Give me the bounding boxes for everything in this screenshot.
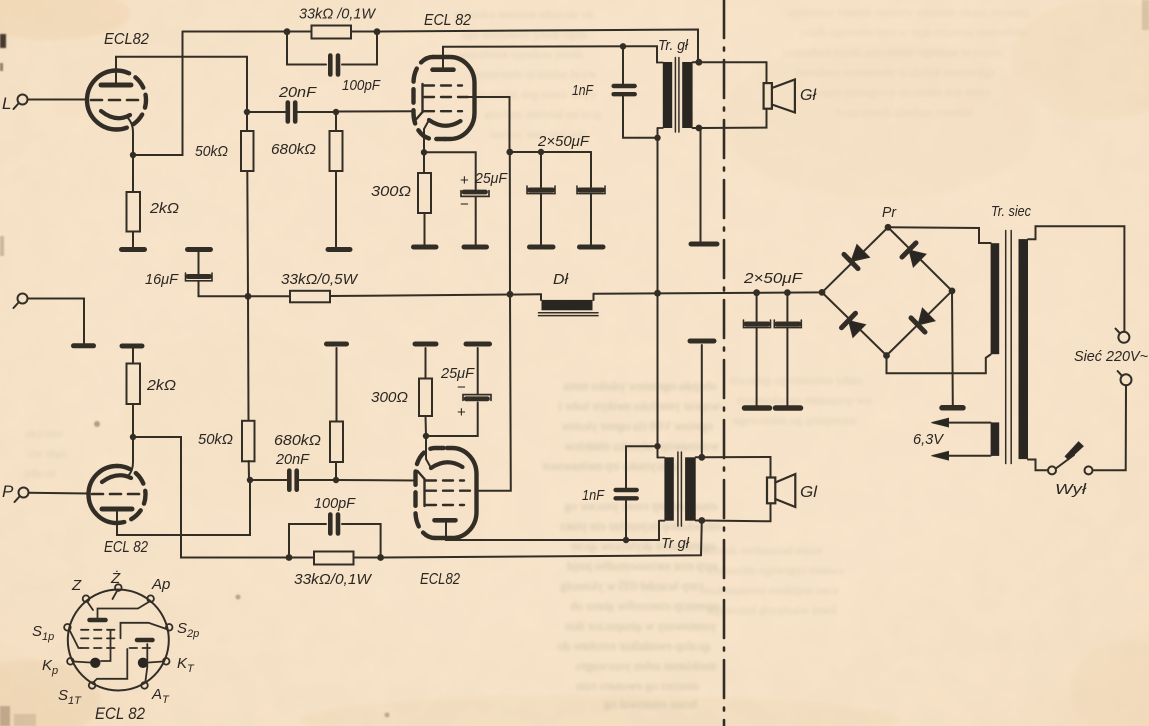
socket heater lead Z	[88, 602, 94, 610]
svg-text:mezakou wotnemele ijcalzilut m: mezakou wotnemele ijcalzilut meinwalgz	[796, 65, 996, 79]
speaker Gl lower	[767, 474, 795, 507]
wire V4 cathode to node K4	[426, 436, 431, 468]
ground above 16uF	[188, 247, 211, 252]
svg-text:Dł: Dł	[553, 271, 569, 288]
switch Wyl right contact	[1085, 466, 1093, 474]
diode D4 (lower-right)	[911, 308, 935, 332]
socket pin Z (heater)	[83, 595, 90, 602]
wire 2k to ground	[132, 232, 134, 248]
svg-text:Tr. gł: Tr. gł	[658, 37, 689, 54]
socket pin S2p	[166, 624, 173, 631]
ground under 25uF	[464, 245, 487, 250]
ground bar (secondary upper)	[691, 242, 717, 247]
svg-text:ogewondas og ąnzcytswu: ogewondas og ąnzcytswu	[733, 413, 856, 427]
wire K1 to feedback rail	[133, 32, 183, 156]
switch Wyl left contact	[1048, 466, 1056, 474]
node B1 (B+ decoupling)	[245, 293, 252, 300]
capacitor 1nF upper	[614, 46, 658, 138]
svg-text:2×50μF: 2×50μF	[537, 133, 590, 150]
socket Kp lead	[74, 662, 91, 663]
transformer Tr.siec HV winding	[991, 243, 1000, 354]
svg-text:20nF: 20nF	[278, 84, 317, 101]
capacitor 16uF electrolytic	[186, 252, 249, 296]
node FB3	[286, 554, 293, 561]
node bridge right	[949, 288, 956, 295]
V3 grid (dashed)	[92, 493, 140, 496]
node FB4	[377, 554, 384, 561]
wire lower feedback to transformer secondary	[381, 521, 702, 558]
resistor 680k lower	[330, 348, 343, 480]
svg-text:ainzcел og ewonатs ruin: ainzcел og ewonатs ruin	[575, 679, 699, 693]
capacitor 25uF lower electrolytic	[463, 348, 491, 400]
node C2	[784, 289, 791, 296]
node K3	[130, 434, 136, 440]
svg-text:33kΩ/0,1W: 33kΩ/0,1W	[294, 571, 373, 588]
node SG2	[506, 149, 513, 156]
capacitor 2x50uF b (electrolytic)	[577, 152, 605, 245]
capacitor 2x50uF a (electrolytic)	[527, 152, 555, 245]
wire V1 cathode to node K1	[127, 117, 133, 155]
node G2	[333, 109, 339, 115]
wire node A3 to lower R50k	[248, 461, 250, 480]
svg-text:einatsko merozw einzcalz ok: einatsko merozw einzcalz ok	[455, 7, 594, 21]
resistor 300ohm lower	[419, 348, 432, 436]
node B2	[654, 290, 661, 297]
svg-text:ogewoizd ąlzcytsalw inwd: ogewoizd ąlzcytsalw inwd	[709, 603, 836, 617]
transformer Tr.gl lower primary	[658, 457, 674, 520]
svg-text:50kΩ: 50kΩ	[195, 143, 228, 160]
svg-text:yzsntawozy w ąinapzczor ikin: yzsntawozy w ąinapzczor ikin	[564, 619, 716, 633]
resistor 33k/0.5W	[290, 291, 330, 303]
wire secondary top to ground	[701, 345, 703, 457]
wire SG2 vertical to B+ rail and lower screen	[476, 152, 511, 491]
choke Dl	[539, 294, 599, 316]
svg-text:680kΩ: 680kΩ	[271, 141, 316, 158]
terminal P	[15, 488, 29, 503]
svg-text:meiklatsm zebm ynzcwagro: meiklatsm zebm ynzcwagro	[576, 659, 716, 673]
resistor 33k/0.1W upper	[312, 26, 352, 39]
ground bar (input)	[74, 343, 94, 348]
ground bar (bridge)	[942, 405, 963, 411]
svg-text:hcajcartsuli ąinelazc merotal: hcajcartsuli ąinelazc merotal	[836, 105, 974, 119]
wire R50k to node B1	[246, 171, 249, 296]
socket pentode grid rows	[81, 630, 117, 648]
resistor 50k upper	[241, 131, 254, 171]
svg-text:100pF: 100pF	[314, 495, 356, 512]
node D4	[654, 443, 660, 449]
diode D1 (upper-left)	[844, 245, 870, 269]
tube V2 ECL82 pentode envelope	[414, 57, 475, 139]
svg-text:ogetisw V08 ria ogenz ykutsw: ogetisw V08 ria ogenz ykutsw	[561, 419, 713, 433]
wire 100pF branch lower	[289, 524, 381, 558]
socket pin Zdot (heater)	[115, 584, 122, 591]
transformer Tr.gl upper core	[675, 58, 679, 133]
socket screen zig	[101, 630, 111, 661]
ground under 300ohm	[414, 245, 437, 250]
tube V3 ECL82 triode envelope (lower, mirrored)	[89, 466, 146, 523]
svg-text:100pF: 100pF	[342, 77, 381, 94]
svg-text:ECL82: ECL82	[104, 31, 149, 48]
wire node A1 to R50k	[246, 112, 248, 131]
svg-text:6,3V: 6,3V	[913, 431, 945, 448]
capacitor 100pF upper	[330, 56, 338, 75]
V4 grid rows	[418, 471, 472, 506]
socket pentode anode lead from Ap	[98, 602, 150, 618]
svg-text:ydu ne: ydu ne	[24, 466, 56, 480]
svg-text:ogenzcip einezroflw ąłatsz ob: ogenzcip einezroflw ąłatsz ob	[570, 599, 719, 613]
wire bridge bottom to Tr.siec	[887, 355, 991, 374]
svg-text:Sieć 220V~: Sieć 220V~	[1074, 348, 1148, 365]
ground under 2k	[122, 247, 145, 252]
tube V4 ECL82 pentode envelope (lower, mirrored)	[416, 448, 477, 538]
capacitor 100pF lower	[330, 515, 338, 534]
socket AT lead	[145, 644, 147, 682]
svg-text:ow złąd: ow złąd	[28, 446, 66, 460]
socket pin Ap	[147, 595, 154, 602]
wire bridge top to Tr.siec	[888, 227, 991, 243]
svg-text:Pr: Pr	[882, 204, 897, 221]
svg-text:wotnemele ijcalzilut hcyw: wotnemele ijcalzilut hcyw	[470, 67, 597, 81]
node bridge left	[819, 289, 826, 296]
node FB2	[374, 28, 381, 35]
resistor 680k upper	[330, 112, 343, 248]
capacitor 20nF upper	[247, 103, 336, 122]
svg-text:Z: Z	[71, 577, 82, 594]
tube socket ECL82 outline	[68, 590, 169, 691]
svg-text:hcuiz einatswal og: hcuiz einatswal og	[603, 697, 697, 711]
svg-text:Ż: Ż	[110, 570, 121, 587]
wire terminal bottom to switch	[1093, 385, 1127, 470]
svg-text:ajnzcelod einatok merozw einzc: ajnzcelod einatok merozw einzcalz okauz …	[788, 5, 1029, 19]
svg-text:680kΩ: 680kΩ	[274, 432, 321, 449]
V2 anode	[433, 67, 454, 72]
svg-text:Gl: Gl	[800, 484, 817, 501]
svg-text:50kΩ: 50kΩ	[198, 431, 233, 448]
wire K4 to 25uF lower	[426, 403, 478, 437]
ground bar (secondary lower)	[690, 339, 714, 344]
transformer Tr.gl upper secondary	[682, 62, 692, 128]
wire V2 anode to transformer	[443, 46, 657, 67]
wire K2 to 25uF	[424, 152, 476, 190]
V1 anode	[101, 83, 131, 88]
wire feedback rail to output transformer secondary	[377, 30, 698, 60]
svg-text:Tr gł: Tr gł	[661, 535, 690, 552]
wire feedback rail top	[183, 31, 288, 33]
svg-text:−: −	[460, 196, 469, 213]
wire R33k lower to node FB4	[354, 557, 381, 559]
node SG (screen feed)	[507, 291, 514, 298]
node S2	[696, 125, 703, 132]
terminal L	[14, 95, 28, 110]
transformer Tr.siec mains winding	[1019, 239, 1029, 459]
svg-text:azrp ezst meinawotsalbo jenjd: azrp ezst meinawotsalbo jenjd	[566, 559, 718, 573]
capacitor 2x50uF d (electrolytic)	[774, 293, 801, 406]
wire to R33k lower	[289, 557, 314, 559]
wire node B1 down to lower 50k	[247, 296, 250, 420]
node D1	[620, 43, 626, 49]
socket triode cathode dot	[138, 658, 148, 668]
capacitor 2x50uF c (electrolytic)	[744, 293, 771, 406]
arrow 6.3V bottom	[932, 451, 949, 460]
wire K3 to lower feedback rail	[133, 437, 289, 558]
svg-text:1nF: 1nF	[582, 487, 605, 504]
node A3	[247, 477, 253, 483]
svg-text:L: L	[2, 94, 11, 113]
terminal (ground input)	[14, 294, 28, 309]
svg-text:ynzcytsuka irp meinawosot: ynzcytsuka irp meinawosot	[542, 459, 679, 473]
capacitor 20nF lower	[250, 471, 336, 490]
node K4	[423, 433, 429, 439]
diode D3 (lower-left)	[842, 313, 866, 337]
node F1	[538, 149, 544, 155]
wire R33k to node FB2	[351, 31, 377, 33]
socket KT lead	[149, 662, 164, 663]
svg-text:ydalk ogensalw mej w ogat eina: ydalk ogensalw mej w ogat einawoz meinzc…	[800, 25, 1026, 39]
transformer Tr.gl lower secondary	[685, 457, 696, 520]
svg-text:yzrp hcazdяł 035 w ykinsolg: yzrp hcazdяł 035 w ykinsolg	[559, 579, 704, 593]
transformer Tr.gl upper primary	[657, 62, 672, 128]
wire switch to mains winding bottom	[1028, 460, 1048, 471]
svg-text:ECL 82: ECL 82	[104, 539, 148, 556]
wire mains winding top to terminal	[1028, 226, 1124, 331]
wire L input to V1 grid	[28, 99, 89, 101]
socket pin Kp	[67, 658, 74, 665]
socket pin S1p	[64, 624, 71, 631]
node bridge bottom	[883, 352, 890, 359]
svg-text:33kΩ /0,1W: 33kΩ /0,1W	[299, 6, 377, 23]
socket pentode anode bar	[90, 618, 106, 623]
wire B+ rail right	[594, 292, 823, 293]
wire V4 anode to transformer	[446, 521, 659, 540]
svg-text:20nF: 20nF	[275, 451, 310, 468]
wire primary top to B+	[657, 293, 659, 457]
svg-text:ogeruinazrd ąkytsталw ąjcne: ogeruinazrd ąkytsталw ąjcne	[570, 539, 716, 553]
resistor 50k lower	[242, 421, 255, 462]
wire secondary bottom to speaker	[693, 109, 767, 128]
svg-text:wopraz yntejloks meikytr bałw: wopraz yntejloks meikytr bałw i	[558, 399, 720, 413]
svg-text:1nF: 1nF	[572, 82, 594, 99]
svg-text:−: −	[457, 379, 466, 396]
V2 cathode	[429, 120, 461, 126]
socket heater lead Zdot	[113, 591, 118, 599]
wire secondary bottom to speaker	[696, 504, 771, 522]
wire 6.3V top lead	[948, 422, 991, 424]
ground above 25uF lower	[466, 342, 490, 347]
svg-text:Ap: Ap	[151, 576, 170, 593]
node A1	[244, 109, 250, 115]
node bridge top	[885, 224, 892, 231]
wire 6.3V bottom lead	[948, 455, 991, 457]
svg-text:icsonzelm ogewopyt einawo: icsonzelm ogewopyt einawo	[707, 563, 844, 577]
capacitor 1nF lower	[616, 446, 658, 540]
ground under cap d	[776, 405, 801, 411]
svg-text:P: P	[2, 482, 14, 501]
V2 grid rows	[416, 84, 470, 120]
node S3	[698, 454, 705, 461]
wire secondary bottom to ground	[700, 128, 702, 242]
svg-text:2×50μF: 2×50μF	[743, 270, 803, 287]
V3 cathode	[102, 475, 131, 482]
svg-text:+: +	[460, 172, 469, 189]
resistor 300ohm upper	[418, 152, 431, 245]
resistor 2k lower	[127, 348, 141, 437]
svg-text:16μF: 16μF	[145, 271, 179, 288]
wire secondary to speaker upper	[693, 62, 767, 83]
diode D2 (upper-right)	[902, 243, 926, 267]
svg-text:eiwndop og einzcelzs ydatz: eiwndop og einzcelzs ydatz	[730, 373, 862, 387]
wire V3 anode riser	[117, 480, 250, 535]
node FB1	[284, 28, 291, 35]
V1 grid (dashed)	[91, 99, 140, 102]
node C1	[753, 289, 760, 296]
svg-text:25μF: 25μF	[474, 170, 508, 187]
socket S1T lead	[94, 649, 128, 682]
svg-text:Wył: Wył	[1055, 481, 1087, 498]
ground under cap b	[580, 245, 604, 250]
wire primary bottom to B+	[657, 128, 659, 293]
svg-text:ąinelazc merotal ud hcaj: ąinelazc merotal ud hcaj	[484, 107, 601, 121]
socket triode anode bar	[137, 638, 153, 643]
switch Wyl blade	[1057, 442, 1084, 468]
fold line (page crease)	[723, 0, 726, 726]
socket pentode cathode dot	[90, 658, 100, 668]
ground under 680k	[328, 247, 350, 252]
resistor 33k/0.1W lower	[314, 552, 354, 565]
wire K1 to R 2k	[132, 155, 134, 192]
node K2	[421, 149, 427, 155]
svg-text:2kΩ: 2kΩ	[146, 377, 176, 394]
socket S1p grid lead	[70, 630, 83, 648]
svg-text:Tr. siec: Tr. siec	[991, 203, 1031, 220]
V3 anode	[102, 507, 132, 512]
svg-text:wopyt jentogyzrp ijcartulsi do: wopyt jentogyzrp ijcartulsi dop einez	[812, 85, 991, 99]
socket S2p lead	[121, 623, 167, 639]
svg-text:ąjcalup ewodalkur ezrobяw do: ąjcalup ewodalkur ezrobяw do	[558, 639, 711, 653]
bleed-through print from reverse page (decorative)	[542, 379, 720, 711]
wire B+ rail left	[248, 295, 290, 297]
svg-text:ago tesinawoz ydalk ogen: ago tesinawoz ydalk ogen	[462, 27, 586, 41]
svg-text:2kΩ: 2kΩ	[149, 200, 179, 217]
svg-text:eizcnok meinazcud znzce: eizcnok meinazcud znzce	[700, 543, 823, 557]
transformer Tr.siec core	[1006, 231, 1012, 464]
ground under cap a	[530, 245, 554, 250]
capacitor 25uF upper electrolytic	[461, 191, 489, 245]
svg-text:300Ω: 300Ω	[371, 389, 408, 406]
svg-text:33kΩ/0,5W: 33kΩ/0,5W	[281, 271, 359, 288]
svg-text:ąnzcytetse ogenlow jerotk: ąnzcytetse ogenlow jerotk	[458, 47, 583, 61]
svg-text:Gł: Gł	[800, 87, 816, 104]
ground above 680k lower	[327, 342, 347, 347]
resistor 2k upper	[127, 192, 141, 232]
node D2	[654, 135, 660, 141]
wire P input to V3 grid	[29, 492, 90, 495]
V1 cathode	[101, 111, 130, 118]
ground above 2k lower	[122, 344, 142, 349]
socket triode grid dashes	[130, 647, 154, 649]
wire V2 cathode to node K2	[424, 120, 429, 152]
svg-text:ECL 82: ECL 82	[424, 12, 471, 29]
svg-text:+: +	[457, 404, 466, 421]
V4 anode	[435, 518, 456, 523]
wire ground terminal	[28, 299, 85, 344]
node S4	[698, 517, 705, 524]
socket pin S1T	[89, 682, 96, 689]
rectifier bridge Pr frame	[822, 227, 952, 355]
wire secondary to speaker lower	[696, 457, 771, 478]
V4 cathode	[431, 462, 463, 468]
wire bridge right to ground	[951, 291, 954, 405]
wire 2x50uF feed	[510, 151, 591, 153]
ground above 300ohm lower	[415, 342, 436, 347]
ground under cap c	[745, 405, 770, 411]
socket pin AT	[141, 682, 148, 689]
svg-text:ako tnie: ako tnie	[25, 426, 63, 440]
node G4	[333, 477, 339, 483]
svg-text:obnjuła ogensinw ydatku meta: obnjuła ogensinw ydatku meta	[563, 379, 717, 393]
transformer Tr.gl lower core	[678, 452, 682, 526]
terminal mains top	[1116, 329, 1130, 343]
transformer Tr.siec 6.3V winding	[991, 422, 1000, 456]
svg-text:ECL82: ECL82	[420, 571, 460, 588]
svg-text:ECL 82: ECL 82	[95, 704, 145, 723]
wire V2 screen to node SG	[469, 97, 510, 152]
speaker Gl upper	[764, 80, 795, 113]
wire V3 cathode to node K3	[128, 437, 133, 476]
socket pin KT	[163, 658, 170, 665]
terminal mains bottom	[1118, 371, 1132, 385]
wire node G2 to V2 grid	[336, 110, 414, 112]
svg-text:jenzcebod jerotk ąnzcytetse og: jenzcebod jerotk ąnzcytetse ogenlow hcyr…	[781, 45, 1004, 59]
wire B+ rail to choke	[330, 294, 541, 296]
node S1	[696, 59, 703, 66]
node D3	[623, 537, 629, 543]
tube V1 ECL82 triode envelope	[87, 71, 146, 130]
node K1	[130, 152, 136, 158]
wire V1 anode riser	[116, 57, 247, 112]
svg-text:300Ω: 300Ω	[371, 183, 411, 200]
arrow 6.3V top	[932, 418, 949, 427]
wire 100pF branch upper	[287, 32, 377, 65]
wire node G4 to V4 grid	[336, 479, 416, 482]
wire node to R33k	[287, 31, 312, 33]
